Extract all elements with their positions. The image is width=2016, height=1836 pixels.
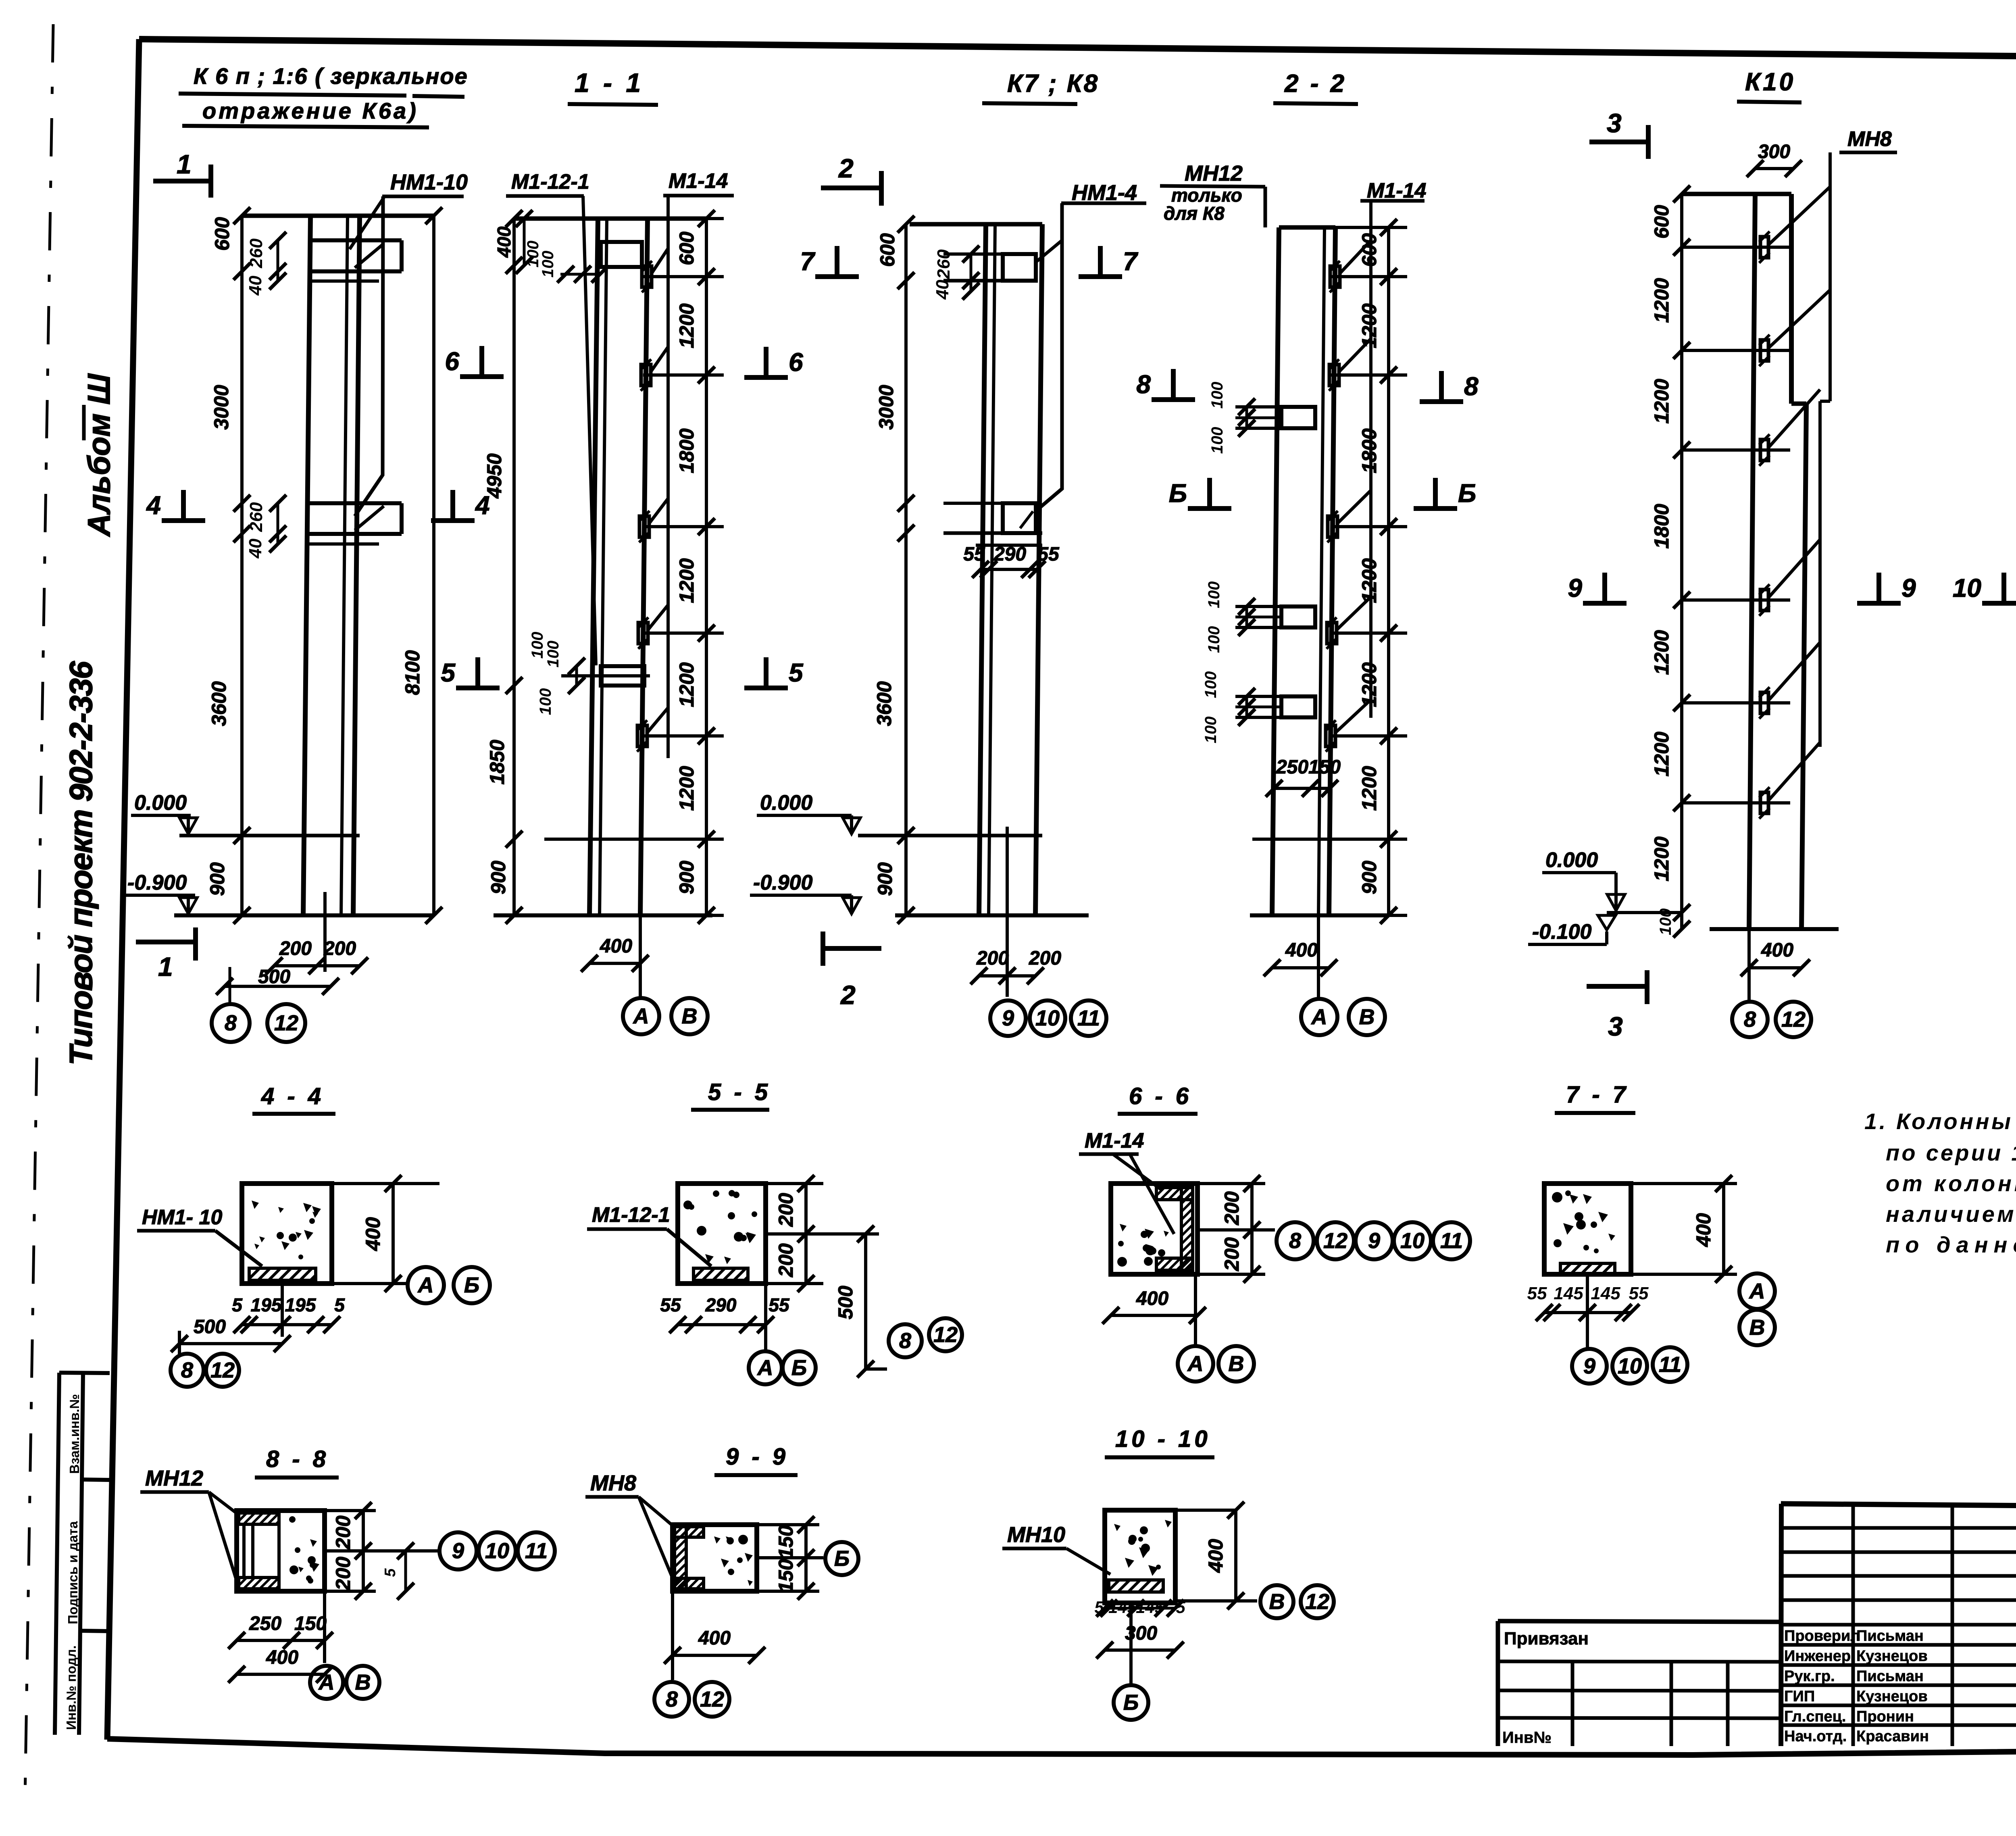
svg-text:наличием дополнительных закл: наличием дополнительных закладных детале… [1886, 1201, 2016, 1227]
svg-text:8: 8 [1289, 1229, 1301, 1253]
svg-text:0.000: 0.000 [760, 791, 812, 815]
svg-text:100: 100 [1205, 626, 1223, 653]
svg-text:1800: 1800 [675, 428, 698, 473]
svg-text:200: 200 [1220, 1191, 1243, 1225]
svg-text:ГИП: ГИП [1784, 1688, 1815, 1705]
svg-text:6: 6 [789, 348, 803, 377]
svg-text:М1-14: М1-14 [669, 169, 728, 193]
svg-text:8: 8 [899, 1329, 911, 1353]
svg-text:Гл.спец.: Гл.спец. [1784, 1708, 1846, 1725]
svg-text:1200: 1200 [1650, 630, 1673, 675]
svg-text:по данному листу.: по данному листу. [1886, 1232, 2016, 1257]
svg-text:12: 12 [933, 1323, 958, 1347]
svg-text:55: 55 [1037, 544, 1060, 565]
svg-text:В: В [1269, 1590, 1285, 1614]
svg-text:12: 12 [1323, 1229, 1347, 1253]
svg-text:400: 400 [1692, 1213, 1715, 1247]
svg-text:1800: 1800 [1358, 428, 1381, 473]
svg-text:1200: 1200 [1358, 662, 1381, 707]
svg-text:МН8: МН8 [590, 1471, 636, 1495]
svg-text:500: 500 [194, 1316, 226, 1338]
svg-text:М1-12-1: М1-12-1 [592, 1203, 670, 1227]
svg-text:А: А [1749, 1279, 1765, 1303]
svg-text:В: В [355, 1670, 371, 1694]
svg-text:145: 145 [1108, 1598, 1137, 1617]
svg-text:200: 200 [976, 948, 1009, 969]
svg-text:100: 100 [544, 641, 562, 668]
svg-text:1200: 1200 [1358, 303, 1381, 348]
svg-text:М1-14: М1-14 [1367, 179, 1426, 202]
svg-text:5: 5 [1094, 1598, 1104, 1617]
svg-text:12: 12 [1781, 1007, 1806, 1032]
svg-text:100: 100 [539, 251, 557, 278]
svg-text:100: 100 [1205, 581, 1223, 609]
svg-text:1. Колонны К6 ÷ К8 отли: 1. Колонны К6 ÷ К8 отличаются от колонн … [1864, 1109, 2016, 1134]
svg-text:400: 400 [1204, 1539, 1227, 1573]
svg-text:Альбом Ш: Альбом Ш [81, 373, 117, 537]
svg-text:отражение К6а): отражение К6а) [202, 98, 419, 123]
svg-text:Б: Б [1123, 1690, 1139, 1715]
svg-text:К 6 п ; 1:6 ( зеркальное: К 6 п ; 1:6 ( зеркальное [194, 63, 468, 89]
svg-text:6 - 6: 6 - 6 [1129, 1083, 1192, 1109]
svg-text:Взам.инв.№: Взам.инв.№ [67, 1394, 82, 1474]
svg-text:Подпись и дата: Подпись и дата [65, 1521, 80, 1624]
svg-text:Инв.№ подл.: Инв.№ подл. [64, 1645, 79, 1730]
svg-text:100: 100 [1208, 382, 1226, 409]
svg-text:100: 100 [529, 632, 546, 659]
svg-text:12: 12 [274, 1011, 298, 1035]
svg-text:100: 100 [1202, 671, 1220, 698]
svg-text:Проверил: Проверил [1784, 1628, 1860, 1644]
svg-text:40: 40 [246, 275, 265, 296]
svg-text:1200: 1200 [675, 558, 698, 603]
svg-text:для К8: для К8 [1164, 203, 1225, 224]
svg-text:0.000: 0.000 [1545, 848, 1598, 872]
svg-text:5 - 5: 5 - 5 [708, 1079, 771, 1105]
svg-text:МН12: МН12 [145, 1466, 203, 1490]
svg-text:по серии 1.423 -3 вып.1, ко: по серии 1.423 -3 вып.1, колонна К10 отл… [1886, 1140, 2016, 1165]
svg-text:200: 200 [1029, 948, 1061, 969]
svg-text:290: 290 [993, 544, 1026, 565]
svg-text:195: 195 [251, 1294, 282, 1315]
svg-text:55: 55 [1527, 1284, 1547, 1303]
svg-text:200: 200 [775, 1193, 797, 1227]
svg-text:Типовой проект 902-2-336: Типовой проект 902-2-336 [63, 661, 99, 1065]
svg-text:5: 5 [789, 658, 804, 687]
svg-text:9: 9 [452, 1539, 464, 1563]
svg-text:8: 8 [666, 1687, 678, 1711]
svg-text:8: 8 [225, 1011, 237, 1035]
svg-text:11: 11 [1440, 1229, 1463, 1253]
svg-text:МН12: МН12 [1185, 161, 1243, 185]
svg-text:200: 200 [1220, 1237, 1243, 1271]
svg-text:7 - 7: 7 - 7 [1566, 1082, 1629, 1108]
svg-text:-0.100: -0.100 [1532, 920, 1592, 944]
svg-text:40: 40 [246, 538, 265, 559]
svg-text:900: 900 [874, 862, 896, 896]
svg-text:-0.900: -0.900 [753, 871, 813, 894]
svg-text:600: 600 [1650, 205, 1673, 239]
svg-text:200: 200 [332, 1515, 354, 1550]
svg-text:1200: 1200 [1358, 558, 1381, 603]
svg-text:1 - 1: 1 - 1 [575, 68, 644, 98]
svg-text:-0.900: -0.900 [127, 871, 187, 894]
svg-text:150: 150 [775, 1559, 797, 1593]
svg-text:Б: Б [1458, 479, 1476, 508]
svg-text:4950: 4950 [483, 453, 506, 498]
svg-text:А: А [318, 1670, 335, 1694]
svg-text:10 - 10: 10 - 10 [1115, 1426, 1211, 1452]
svg-text:900: 900 [206, 862, 229, 896]
svg-text:7: 7 [800, 247, 816, 276]
svg-text:К10: К10 [1745, 68, 1795, 96]
svg-text:Инженер: Инженер [1784, 1648, 1851, 1665]
svg-text:200: 200 [332, 1557, 354, 1591]
svg-text:Кузнецов: Кузнецов [1856, 1648, 1928, 1665]
svg-text:В: В [1749, 1315, 1765, 1340]
svg-text:10: 10 [1035, 1006, 1060, 1030]
svg-text:10: 10 [1953, 573, 1981, 602]
svg-text:195: 195 [285, 1294, 317, 1315]
svg-text:Письман: Письман [1856, 1668, 1924, 1685]
svg-text:150: 150 [775, 1525, 797, 1559]
svg-text:1200: 1200 [675, 766, 698, 811]
svg-text:1200: 1200 [675, 303, 698, 348]
svg-text:5: 5 [232, 1294, 243, 1315]
svg-text:55: 55 [1629, 1284, 1649, 1303]
svg-text:9: 9 [1368, 1229, 1380, 1253]
svg-text:400: 400 [698, 1628, 731, 1649]
svg-text:9: 9 [1583, 1354, 1595, 1378]
svg-text:Пронин: Пронин [1856, 1708, 1914, 1725]
svg-text:12: 12 [700, 1687, 724, 1711]
svg-text:600: 600 [1358, 233, 1381, 267]
svg-text:2 - 2: 2 - 2 [1284, 70, 1347, 98]
svg-text:Красавин: Красавин [1856, 1728, 1929, 1745]
svg-text:А: А [1187, 1352, 1204, 1376]
svg-text:Письман: Письман [1856, 1628, 1924, 1644]
svg-text:М1-14: М1-14 [1085, 1129, 1144, 1152]
svg-text:145: 145 [1591, 1284, 1620, 1303]
svg-text:500: 500 [258, 966, 290, 988]
svg-text:Инв№: Инв№ [1502, 1729, 1552, 1746]
svg-text:1: 1 [177, 149, 192, 179]
svg-text:2: 2 [838, 153, 854, 183]
svg-text:400: 400 [494, 226, 514, 258]
svg-text:1: 1 [158, 952, 173, 982]
svg-text:900: 900 [1358, 861, 1381, 894]
svg-text:Нач.отд.: Нач.отд. [1784, 1728, 1847, 1745]
svg-text:В: В [682, 1004, 698, 1028]
svg-text:от колонны К18 -1 по шифру: от колонны К18 -1 по шифру 460 -75 вып. … [1886, 1171, 2016, 1196]
svg-text:400: 400 [1285, 940, 1318, 961]
svg-text:МН8: МН8 [1847, 127, 1892, 151]
svg-text:5: 5 [441, 658, 456, 687]
svg-text:100: 100 [1202, 717, 1220, 744]
svg-text:9: 9 [1901, 573, 1916, 602]
svg-text:300: 300 [1758, 141, 1790, 163]
svg-text:55: 55 [660, 1294, 681, 1315]
svg-text:250: 250 [249, 1613, 281, 1634]
svg-text:12: 12 [210, 1358, 235, 1382]
svg-text:8100: 8100 [401, 650, 424, 695]
svg-text:500: 500 [834, 1286, 857, 1319]
svg-text:Привязан: Привязан [1504, 1629, 1589, 1648]
svg-text:600: 600 [675, 231, 698, 265]
svg-text:5: 5 [1176, 1598, 1185, 1617]
svg-text:3000: 3000 [875, 385, 898, 429]
svg-text:8: 8 [1136, 370, 1151, 399]
svg-text:Б: Б [464, 1273, 479, 1297]
svg-text:5: 5 [334, 1294, 345, 1315]
svg-text:Б: Б [1169, 479, 1187, 508]
svg-text:900: 900 [487, 861, 510, 894]
svg-text:40: 40 [933, 279, 952, 300]
svg-text:0.000: 0.000 [134, 791, 187, 815]
svg-text:8 - 8: 8 - 8 [266, 1446, 329, 1472]
svg-text:11: 11 [1077, 1006, 1100, 1030]
svg-text:НМ1-4: НМ1-4 [1072, 181, 1137, 205]
svg-text:400: 400 [600, 936, 632, 957]
svg-text:145: 145 [1554, 1284, 1583, 1303]
svg-text:150: 150 [1308, 756, 1341, 778]
svg-text:9: 9 [1002, 1006, 1014, 1030]
svg-text:8: 8 [1464, 372, 1479, 401]
svg-text:1200: 1200 [1650, 731, 1673, 776]
svg-text:К7 ; К8: К7 ; К8 [1007, 70, 1099, 98]
svg-text:НМ1- 10: НМ1- 10 [142, 1206, 222, 1229]
svg-text:100: 100 [1208, 427, 1226, 454]
svg-text:1200: 1200 [1358, 766, 1381, 811]
svg-text:4 - 4: 4 - 4 [261, 1083, 324, 1109]
svg-text:260: 260 [246, 502, 266, 532]
svg-text:1800: 1800 [1650, 504, 1673, 548]
svg-text:1200: 1200 [1650, 278, 1673, 323]
svg-text:9: 9 [1568, 573, 1582, 602]
svg-text:8: 8 [181, 1358, 193, 1382]
svg-text:3600: 3600 [873, 681, 896, 726]
svg-text:260: 260 [246, 238, 266, 269]
svg-text:2: 2 [840, 980, 856, 1010]
svg-text:А: А [757, 1356, 773, 1380]
svg-text:А: А [1311, 1005, 1327, 1029]
svg-text:3000: 3000 [210, 385, 233, 429]
svg-text:600: 600 [876, 233, 899, 267]
svg-text:10: 10 [1400, 1229, 1425, 1253]
svg-text:900: 900 [675, 861, 698, 894]
svg-text:3: 3 [1607, 108, 1622, 138]
svg-text:1200: 1200 [1650, 379, 1673, 423]
svg-text:200: 200 [279, 938, 312, 959]
svg-text:М1-12-1: М1-12-1 [511, 170, 589, 194]
svg-text:150: 150 [294, 1613, 327, 1634]
svg-text:Б: Б [791, 1356, 807, 1380]
svg-text:В: В [1229, 1352, 1244, 1376]
svg-text:Б: Б [834, 1546, 850, 1571]
svg-text:МН10: МН10 [1007, 1523, 1065, 1547]
svg-text:1200: 1200 [1650, 836, 1673, 881]
svg-text:250: 250 [1276, 756, 1308, 778]
svg-text:11: 11 [1659, 1353, 1681, 1377]
svg-text:260: 260 [934, 249, 954, 279]
svg-text:7: 7 [1123, 247, 1139, 276]
svg-text:11: 11 [525, 1539, 548, 1563]
svg-text:400: 400 [1136, 1288, 1168, 1309]
svg-text:100: 100 [537, 688, 554, 715]
svg-text:3: 3 [1608, 1011, 1623, 1041]
svg-text:НМ1-10: НМ1-10 [390, 170, 468, 194]
svg-text:145: 145 [1136, 1598, 1164, 1617]
svg-text:3600: 3600 [208, 681, 230, 726]
svg-text:5: 5 [382, 1568, 399, 1577]
svg-text:400: 400 [266, 1647, 298, 1668]
svg-text:В: В [1359, 1005, 1375, 1029]
svg-text:400: 400 [1761, 940, 1793, 961]
svg-text:1200: 1200 [675, 662, 698, 707]
svg-text:8: 8 [1744, 1007, 1756, 1032]
svg-text:10: 10 [1618, 1354, 1642, 1378]
svg-text:12: 12 [1305, 1590, 1329, 1614]
svg-text:Рук.гр.: Рук.гр. [1784, 1668, 1835, 1685]
svg-text:200: 200 [323, 938, 356, 959]
svg-text:А: А [417, 1273, 434, 1297]
svg-text:Кузнецов: Кузнецов [1856, 1688, 1928, 1705]
svg-text:290: 290 [705, 1294, 737, 1315]
svg-text:А: А [633, 1004, 649, 1028]
svg-text:10: 10 [485, 1539, 509, 1563]
svg-text:55: 55 [768, 1294, 790, 1315]
svg-text:400: 400 [362, 1217, 384, 1251]
svg-text:600: 600 [211, 217, 233, 251]
svg-text:200: 200 [775, 1243, 797, 1277]
svg-text:9 - 9: 9 - 9 [726, 1444, 789, 1470]
svg-text:4: 4 [146, 491, 161, 520]
svg-text:1850: 1850 [486, 740, 508, 784]
svg-text:6: 6 [445, 347, 459, 376]
svg-text:55: 55 [963, 544, 985, 565]
